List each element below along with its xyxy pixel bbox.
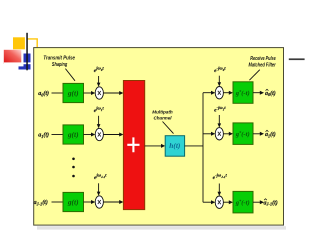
block g*(-t) row3 [233, 191, 253, 213]
arrow exponent to multiplier right row3 [218, 184, 222, 197]
logo blue bottom bar [19, 66, 31, 69]
logo black vertical line [26, 33, 28, 71]
wire a0 to g(t) [52, 92, 64, 94]
multiplier row2 right [215, 128, 223, 140]
wire aJ-1 to g(t) [52, 201, 64, 203]
svg-text:Shaping: Shaping [52, 62, 67, 68]
wire branch to multiplier row1 [203, 91, 215, 95]
wire h(t) to branch node [185, 145, 203, 147]
arrow exponent to multiplier row2 [97, 116, 101, 129]
wire multiplier to matched filter row2 [223, 132, 233, 136]
block g*(-t) row2 [233, 123, 253, 144]
channel block h(t) [165, 136, 184, 157]
summer red block [123, 81, 144, 210]
svg-text:g*(-t): g*(-t) [235, 89, 250, 97]
svg-text:h(t): h(t) [169, 141, 180, 150]
output label a^1(t) [265, 130, 276, 138]
svg-text:g(t): g(t) [67, 130, 79, 139]
pointer line multipath channel [163, 122, 174, 134]
slide shadow [37, 226, 286, 229]
svg-text:Receive Pulse: Receive Pulse [250, 56, 276, 62]
wire g(t) to multiplier row1 [84, 91, 96, 95]
block g(t) row3 [63, 192, 84, 211]
slide background [34, 48, 284, 226]
wire g(t) to multiplier row3 [84, 200, 96, 204]
svg-text:Channel: Channel [153, 115, 172, 120]
output wire row3 [253, 200, 264, 204]
block g(t) row2 [63, 125, 84, 144]
wire multiplier to summer row1 [103, 91, 123, 95]
wire multiplier to summer row2 [103, 133, 123, 137]
logo yellow angle line [28, 39, 38, 47]
logo red gradient square [4, 50, 22, 64]
logo yellow square [13, 37, 25, 49]
decorative dash top right [289, 58, 305, 60]
logo white stripe [4, 62, 31, 64]
svg-text:g*(-t): g*(-t) [235, 198, 250, 206]
block g*(-t) row1 [233, 82, 253, 104]
pointer line transmit header [65, 69, 75, 81]
wire multiplier to matched filter row1 [223, 91, 233, 95]
svg-text:a1(t): a1(t) [265, 131, 276, 138]
arrow exponent to multiplier right row2 [218, 115, 222, 128]
multiplier row1 right [215, 87, 223, 99]
wire multiplier to matched filter row3 [223, 200, 233, 204]
output label a^0(t) [265, 89, 276, 97]
vertical dots between row2 and row3 [72, 158, 75, 178]
output wire row1 [253, 91, 264, 95]
arrow exponent to multiplier right row1 [218, 76, 222, 87]
output wire row2 [253, 132, 264, 136]
wire multiplier to summer row3 [103, 200, 123, 204]
svg-text:Multipath: Multipath [152, 110, 173, 115]
multiplier row1 left [95, 87, 103, 99]
block g(t) row1 [63, 83, 84, 102]
arrow exponent to multiplier row1 [97, 76, 101, 87]
logo blue square [24, 54, 31, 67]
multiplier row2 left [95, 128, 103, 140]
wire branch to multiplier row2 [203, 132, 215, 136]
wire g(t) to multiplier row2 [84, 133, 96, 137]
svg-text:g(t): g(t) [67, 197, 79, 206]
pointer line receive header [249, 70, 259, 81]
wire branch to multiplier row3 [203, 200, 215, 204]
arrow exponent to multiplier row3 [97, 183, 101, 196]
svg-text:g(t): g(t) [67, 88, 79, 97]
multiplier row3 left [95, 196, 103, 208]
svg-text:Transmit Pulse: Transmit Pulse [43, 56, 75, 62]
branch vertical wire [202, 93, 204, 203]
svg-text:a1(t): a1(t) [38, 132, 49, 139]
svg-text:a0(t): a0(t) [265, 90, 276, 97]
svg-text:a0(t): a0(t) [38, 90, 49, 97]
output label a^J-1(t) [264, 199, 278, 207]
multiplier row3 right [215, 196, 223, 208]
wire a1 to g(t) [52, 134, 64, 136]
svg-text:g*(-t): g*(-t) [235, 130, 250, 138]
wire summer to channel h(t) [145, 144, 166, 148]
svg-text:Matched Filter: Matched Filter [249, 63, 277, 69]
